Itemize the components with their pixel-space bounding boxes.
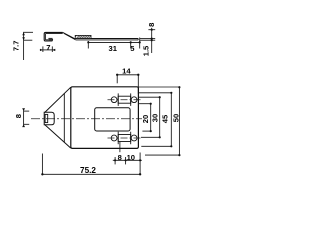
bottom slot left tick xyxy=(117,132,119,145)
plan tip clip inner bar xyxy=(45,114,48,122)
top slot centerline xyxy=(108,99,142,101)
hatch pad block on sheet xyxy=(75,35,91,38)
dimension 20 line xyxy=(150,104,152,131)
plan inner plate xyxy=(95,108,130,131)
top slot right tick xyxy=(130,93,132,106)
sheet lower run bottom line xyxy=(76,39,139,41)
svg-text:30: 30 xyxy=(151,114,160,122)
dimension 8 / 1.5 (right of side view) xyxy=(140,28,155,53)
svg-text:8: 8 xyxy=(147,23,156,27)
plan bend line xyxy=(63,94,65,143)
side view sheet profile: hook outer outline xyxy=(44,32,63,41)
bottom slot right tick xyxy=(130,132,132,145)
hook curl (dark blob bottom-right) xyxy=(48,38,52,41)
dimension 45 line xyxy=(170,93,172,147)
top slot left circle xyxy=(111,97,117,103)
svg-text:10: 10 xyxy=(127,153,135,162)
bottom slot right circle xyxy=(131,135,137,141)
dimension 14 (top of plan) xyxy=(117,75,138,94)
bottom slot extension tick through body edge xyxy=(119,142,121,152)
svg-text:1.5: 1.5 xyxy=(142,45,151,56)
sheet right end cap xyxy=(137,39,139,40)
bottom slot centerline xyxy=(108,137,142,139)
dimension 50 line xyxy=(178,87,180,155)
svg-text:8: 8 xyxy=(118,153,122,162)
svg-text:20: 20 xyxy=(141,115,150,123)
svg-text:8: 8 xyxy=(14,114,23,118)
plan main centerline (dash-dot) xyxy=(31,118,142,120)
svg-text:45: 45 xyxy=(161,114,170,123)
dimension 7 arrows xyxy=(40,49,55,51)
sheet diagonal upper line xyxy=(63,32,74,38)
plan lower diagonal (tip) xyxy=(45,125,71,148)
svg-text:7: 7 xyxy=(46,43,50,52)
hook inner line (sheet thickness) xyxy=(45,34,62,40)
dimension 8 (left of plan) xyxy=(24,111,30,126)
dimension 8/10 (bottom of plan) xyxy=(113,157,142,164)
top slot body rect xyxy=(118,96,131,103)
dimension 31 and 5 (below sheet) xyxy=(88,38,139,49)
dimension 31/5 arrow dots xyxy=(87,41,89,43)
right dimension stack extensions xyxy=(138,87,179,155)
bottom slot body rect xyxy=(118,135,131,142)
svg-text:31: 31 xyxy=(108,44,117,53)
svg-text:50: 50 xyxy=(171,114,180,122)
dimension 7.7 (left of side view) xyxy=(24,32,33,60)
sheet lower run top line xyxy=(74,38,138,40)
dimension 8 (plan) arrows xyxy=(22,108,25,127)
svg-text:14: 14 xyxy=(122,67,131,76)
dimension 7.7 arrows xyxy=(22,32,25,40)
top slot right circle xyxy=(131,97,137,103)
svg-text:75.2: 75.2 xyxy=(80,166,96,175)
plan tip clip (D shape) xyxy=(44,112,54,125)
svg-text:7.7: 7.7 xyxy=(11,41,20,52)
top slot left tick xyxy=(117,93,119,106)
sheet diagonal lower line xyxy=(64,34,75,40)
dimension 75.2 (bottom) xyxy=(42,153,140,175)
dimension 8/10 arrow dots xyxy=(114,159,116,161)
dimension 75.2 arrow dots xyxy=(41,173,43,175)
dimension 30 line xyxy=(159,97,161,137)
dimension 14 arrow dots xyxy=(116,74,118,76)
plan body rectangle xyxy=(71,87,139,149)
plan upper diagonal (tip) xyxy=(45,87,71,112)
dimension 8/1.5 arrow dots xyxy=(151,29,153,31)
dimension 7 (below hook) xyxy=(40,46,56,52)
bottom slot left circle xyxy=(111,135,117,141)
